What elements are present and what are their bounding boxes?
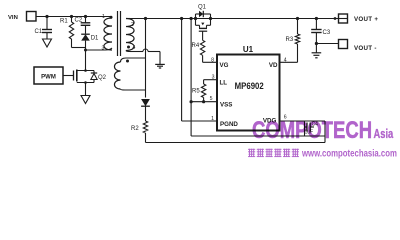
svg-text:2: 2 [131,22,134,28]
svg-text:VOUT +: VOUT + [354,16,378,23]
svg-text:PGND: PGND [220,121,238,128]
svg-text:4: 4 [284,58,287,64]
svg-text:8: 8 [211,58,214,64]
svg-text:PWM: PWM [41,74,56,80]
svg-text:D1: D1 [91,35,99,41]
svg-text:MP6902: MP6902 [235,80,264,91]
svg-text:3: 3 [102,46,105,52]
svg-text:1: 1 [102,14,105,20]
svg-text:R3: R3 [286,37,294,43]
svg-text:C1: C1 [35,29,43,35]
svg-text:C3: C3 [323,30,331,36]
svg-text:VIN: VIN [8,15,18,21]
svg-text:VG: VG [220,62,229,69]
svg-text:VOUT -: VOUT - [354,45,377,52]
svg-text:3: 3 [212,75,215,81]
svg-text:VD: VD [269,62,278,69]
svg-text:R5: R5 [192,88,200,94]
svg-text:R2: R2 [131,126,139,132]
svg-text:U1: U1 [243,45,254,54]
svg-text:1: 1 [211,116,214,122]
svg-text:R1: R1 [60,18,68,24]
svg-text:Q1: Q1 [198,4,207,10]
svg-text:www.compotechasia.com: www.compotechasia.com [301,148,397,159]
svg-text:5: 5 [210,96,213,102]
svg-text:4: 4 [133,45,136,51]
svg-text:LL: LL [220,79,228,86]
svg-text:R4: R4 [192,43,200,49]
svg-text:VSS: VSS [220,101,232,108]
svg-text:Asia: Asia [374,127,394,141]
svg-text:COMPOTECH: COMPOTECH [252,117,372,144]
svg-text:Q2: Q2 [98,75,107,81]
